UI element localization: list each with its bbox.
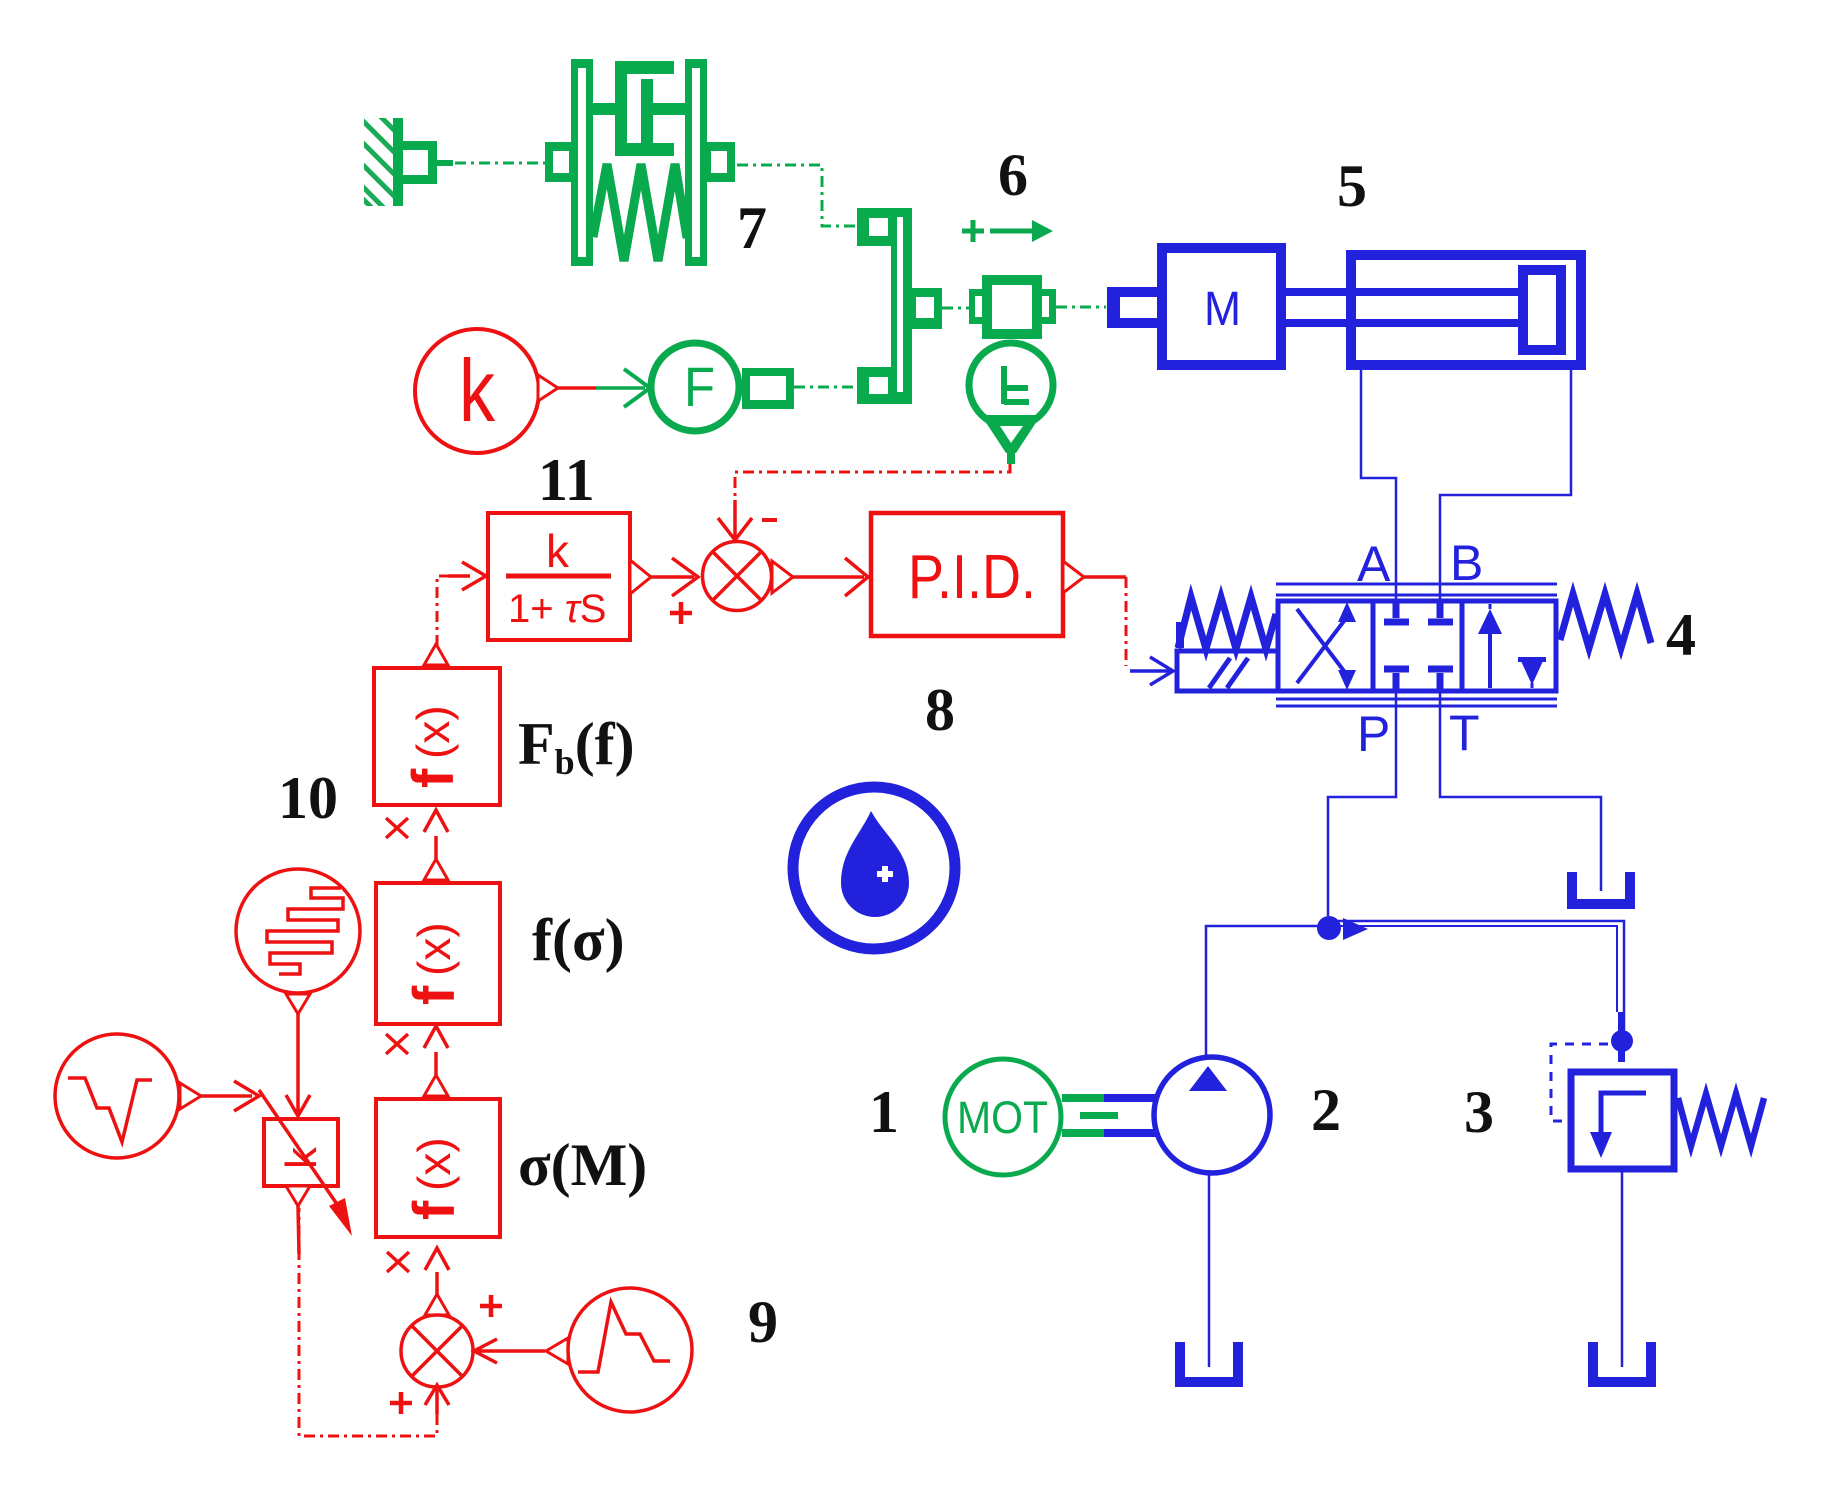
cylinder body 5 <box>1351 255 1581 365</box>
summer junction S1 <box>703 542 772 611</box>
spring-damper R7 left plate <box>571 59 593 266</box>
svg-text:k: k <box>459 341 496 440</box>
plus sign of arrow 6 <box>962 220 984 242</box>
svg-text:MOT: MOT <box>957 1092 1048 1143</box>
plus sign of S1 <box>670 602 692 624</box>
source 10 nib <box>286 994 310 1014</box>
minus sign <box>762 518 777 522</box>
svg-text:P: P <box>1357 706 1390 762</box>
velocity sensor stub <box>1007 450 1015 464</box>
svg-text:P.I.D.: P.I.D. <box>908 543 1036 612</box>
arrow source10 to gain <box>296 1014 300 1112</box>
valve solenoid box <box>1177 651 1278 691</box>
wire S1 to PID <box>793 575 864 579</box>
motor 1 circle <box>945 1059 1061 1175</box>
wire dash-dot Fb block to block11 <box>437 576 452 646</box>
pipe T to top tank <box>1440 691 1601 891</box>
svg-text:1+ τS: 1+ τS <box>508 587 606 631</box>
summer junction S2 <box>401 1315 473 1387</box>
mass right bracket <box>1042 289 1056 324</box>
PID output nib <box>1063 561 1084 593</box>
valve right spring <box>1560 594 1651 648</box>
tank relief <box>1588 1342 1656 1387</box>
wire gain down (solid) <box>298 1206 299 1254</box>
relief valve spring <box>1678 1094 1764 1146</box>
pipe junction to pump <box>1206 926 1329 1058</box>
connector fsigma to Fb <box>424 859 448 880</box>
pipe relief to tank <box>1621 1169 1624 1367</box>
damper rod left <box>591 103 617 115</box>
arrow bottom into S2 <box>425 1385 449 1405</box>
junction node <box>1317 916 1341 940</box>
hydraulic fluid drop icon <box>793 787 955 949</box>
valve 4 top rails <box>1276 583 1557 586</box>
green arrowhead into F <box>624 369 650 407</box>
blue arrow into valve pilot <box>1130 669 1170 673</box>
piston rod <box>1286 288 1522 296</box>
source 10 stair circle <box>236 869 360 993</box>
shaft motor-pump blue part <box>1104 1094 1156 1102</box>
flow arrow <box>1343 918 1368 940</box>
plus sign S2 bottom <box>390 1392 412 1414</box>
pump triangle <box>1189 1066 1227 1091</box>
lever bar <box>891 208 912 404</box>
force source F circle <box>651 343 739 431</box>
connector S2 to sigmaM <box>425 1294 449 1315</box>
wire dash-dot wall to spring-damper <box>455 162 545 165</box>
mass body <box>982 275 1042 339</box>
gain modulation arrow <box>259 1090 343 1213</box>
source k circle <box>415 329 539 453</box>
piston <box>1523 270 1561 350</box>
damper cup <box>615 61 674 156</box>
wire dash-dot mass to hydraulic jack <box>1056 306 1106 309</box>
wire k to F (red part) <box>558 386 596 390</box>
wall <box>350 86 410 246</box>
svg-text:3: 3 <box>1464 1079 1494 1145</box>
svg-text:T: T <box>1449 705 1480 761</box>
valve body centre box closed <box>1373 601 1462 691</box>
lever bottom-left port <box>857 367 893 404</box>
wire dash-dot spring-damper to lever <box>737 165 858 226</box>
stair waveform <box>267 888 343 974</box>
source V nib <box>180 1083 201 1109</box>
jack mass block M <box>1162 248 1281 365</box>
arrow source9 into S2 <box>474 1339 497 1363</box>
pipe pump to tank <box>1208 1170 1211 1367</box>
velocity sensor circle <box>969 343 1053 427</box>
arrow sourceV to gain <box>201 1094 252 1098</box>
spring of R7 <box>593 164 687 261</box>
relief valve 3 body <box>1571 1072 1674 1169</box>
velocity sensor glyph <box>1004 366 1029 404</box>
svg-text:(x): (x) <box>408 1137 460 1191</box>
wire block11 to S1 <box>651 575 694 579</box>
gain box k <box>264 1119 338 1186</box>
arrow 6 <box>990 229 1034 234</box>
svg-text:f: f <box>401 768 466 788</box>
tank pump <box>1175 1342 1243 1387</box>
connector sigmaM to fsigma <box>424 1075 448 1096</box>
valve left spring arrow <box>1176 622 1184 648</box>
mass left bracket <box>969 289 982 324</box>
spring-damper R7 right port <box>707 142 735 182</box>
wire dash-dot F to lever <box>794 386 857 389</box>
pipe junction to relief (double line) <box>1329 921 1624 1030</box>
svg-text:F: F <box>684 355 715 418</box>
pipe cylinder A to valve <box>1361 370 1396 601</box>
wire PID to valve (red) <box>1084 575 1126 579</box>
f(x) block f(sigma) <box>376 883 500 1024</box>
valve left spring <box>1178 597 1276 649</box>
svg-text:6: 6 <box>998 142 1028 208</box>
relief pilot dashed line <box>1551 1044 1608 1121</box>
relief valve arrow <box>1601 1093 1646 1136</box>
valve body left box crossed arrows <box>1278 601 1373 691</box>
valve body right box parallel arrows <box>1462 601 1556 691</box>
svg-text:10: 10 <box>278 765 338 831</box>
svg-text:5: 5 <box>1337 153 1367 219</box>
jack left port <box>1107 287 1157 328</box>
block 11 transfer function <box>488 513 630 640</box>
source 9 nib <box>546 1338 568 1364</box>
svg-text:f(σ): f(σ) <box>532 907 625 973</box>
source V circle <box>55 1034 179 1158</box>
pump 2 circle <box>1154 1057 1270 1173</box>
spring-damper R7 left port <box>545 142 573 182</box>
Fb(f) top nib <box>424 644 448 665</box>
arrow into summer (minus input) <box>733 500 737 538</box>
svg-text:(x): (x) <box>407 705 459 759</box>
wire dash-dot lever to mass <box>942 307 969 310</box>
wire red dash-dot sensor to summer <box>735 464 1010 500</box>
damper rod right <box>651 103 687 115</box>
top tank <box>1567 872 1635 909</box>
valve 4 bottom rails <box>1276 698 1557 701</box>
svg-text:f: f <box>402 985 467 1005</box>
svg-text:(x): (x) <box>408 922 460 976</box>
wire dash-dot gain to S2 <box>299 1208 437 1436</box>
wall port stub <box>437 160 453 166</box>
V waveform <box>68 1078 152 1142</box>
svg-text:B: B <box>1450 535 1483 591</box>
wall bar <box>393 118 403 206</box>
svg-text:1: 1 <box>869 1079 899 1145</box>
gain box bottom nib <box>286 1186 310 1206</box>
svg-text:k: k <box>546 525 570 577</box>
svg-text:2: 2 <box>1311 1077 1341 1143</box>
shaft motor-pump green part <box>1062 1094 1104 1102</box>
wall port <box>403 141 437 184</box>
spring-damper R7 right plate <box>685 59 707 266</box>
svg-text:11: 11 <box>538 447 595 513</box>
f(x) block sigma(M) <box>376 1099 500 1237</box>
plus sign S2 top <box>480 1295 502 1317</box>
block11 output nib <box>630 560 651 594</box>
relief junction node <box>1618 1012 1625 1062</box>
pipe cylinder B to valve <box>1440 370 1571 601</box>
svg-text:4: 4 <box>1666 602 1696 668</box>
svg-text:9: 9 <box>748 1289 778 1355</box>
svg-text:M: M <box>1204 283 1241 336</box>
wire k to F (green part) <box>596 386 645 390</box>
source 9 circle <box>568 1288 692 1412</box>
svg-text:8: 8 <box>925 677 955 743</box>
svg-text:A: A <box>1357 536 1391 592</box>
lever mid-right port <box>910 288 942 329</box>
velocity sensor funnel <box>981 415 1041 453</box>
svg-text:σ(M): σ(M) <box>518 1132 647 1198</box>
svg-text:7: 7 <box>737 195 767 261</box>
svg-text:Fb(f): Fb(f) <box>518 711 635 782</box>
PID block U8 <box>871 513 1063 636</box>
svg-text:f: f <box>402 1200 467 1220</box>
f(x) block Fb(f) <box>374 668 500 805</box>
source 9 waveform <box>578 1302 670 1372</box>
lever top-left port <box>857 208 893 246</box>
damper piston <box>641 79 653 143</box>
pipe P to junction <box>1328 691 1396 916</box>
k output nib <box>538 375 558 401</box>
S1 output nib <box>772 561 793 593</box>
F output port <box>742 368 794 409</box>
